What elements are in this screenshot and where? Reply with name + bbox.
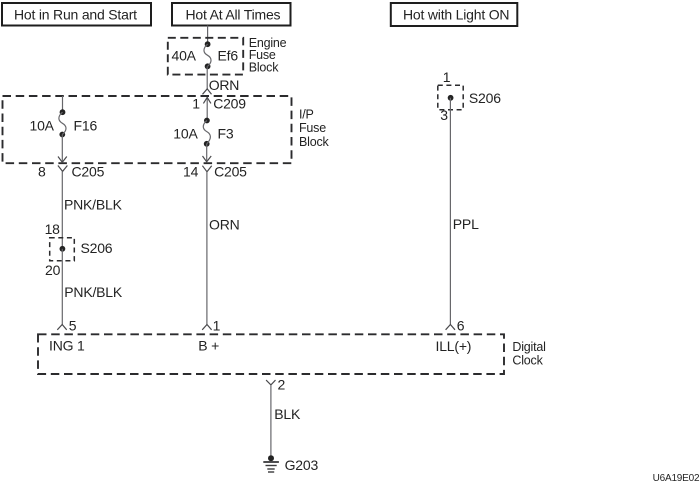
svg-text:ILL(+): ILL(+)	[436, 338, 472, 354]
svg-text:Block: Block	[299, 135, 330, 149]
svg-text:Hot in Run and Start: Hot in Run and Start	[14, 7, 137, 23]
ground G203	[263, 455, 279, 472]
svg-text:1: 1	[192, 96, 200, 112]
bus box Hot with Light ON	[391, 3, 518, 26]
svg-text:ORN: ORN	[209, 77, 240, 93]
clock pin 1 male half	[202, 325, 211, 330]
svg-text:1: 1	[443, 69, 451, 85]
svg-text:5: 5	[69, 318, 77, 334]
svg-text:3: 3	[440, 107, 448, 123]
svg-text:Fuse: Fuse	[299, 121, 326, 135]
svg-text:Hot At All Times: Hot At All Times	[186, 7, 281, 23]
wire ORN from C205-14 to clock pin 1	[206, 172, 208, 325]
bus box Hot At All Times	[172, 3, 291, 26]
wire PNK/BLK from splice to clock pin 5	[61, 249, 63, 325]
svg-text:Hot with Light ON: Hot with Light ON	[403, 7, 509, 23]
svg-text:C205: C205	[72, 164, 105, 180]
clock pin 2 female half	[266, 380, 275, 385]
svg-text:Clock: Clock	[512, 353, 543, 367]
svg-text:20: 20	[45, 262, 61, 278]
splice S206 left dot	[60, 246, 66, 252]
wire Hot At All Times to fuse Ef6	[207, 26, 209, 44]
svg-text:Digital: Digital	[512, 340, 545, 354]
svg-text:14: 14	[183, 164, 199, 180]
I/P Fuse Block dashed box	[3, 96, 292, 163]
clock pin 5 male half	[57, 325, 66, 330]
svg-text:S206: S206	[81, 240, 113, 256]
svg-text:Block: Block	[249, 61, 280, 75]
svg-text:PNK/BLK: PNK/BLK	[64, 284, 123, 300]
bus box Hot in Run and Start	[2, 3, 151, 26]
svg-text:40A: 40A	[172, 48, 197, 64]
svg-text:8: 8	[38, 164, 46, 180]
Digital Clock label	[512, 340, 545, 367]
svg-text:G203: G203	[285, 457, 319, 473]
svg-text:I/P: I/P	[299, 108, 314, 122]
svg-text:2: 2	[278, 377, 286, 393]
connector C209 male arrow	[203, 97, 211, 120]
wire BLK from pin 2 to ground	[270, 385, 272, 458]
connector C205 pin 14 female half	[202, 166, 211, 172]
wire ORN from Ef6 to C209	[206, 66, 208, 89]
wire stub to fuse F16	[62, 96, 64, 111]
svg-text:U6A19E02: U6A19E02	[653, 473, 700, 483]
splice S206 right dot	[448, 95, 454, 101]
Digital Clock dashed box	[38, 334, 504, 374]
wire PPL from splice to clock pin 6	[449, 98, 451, 325]
Engine Fuse Block label	[249, 36, 287, 75]
svg-text:F3: F3	[218, 126, 234, 142]
I/P Fuse Block label	[299, 108, 330, 149]
splice S206 right dashed box	[438, 85, 463, 110]
svg-text:S206: S206	[469, 90, 501, 106]
Engine Fuse Block dashed box	[168, 38, 243, 75]
connector C205 pin 8 female half	[58, 166, 68, 172]
svg-text:18: 18	[45, 221, 61, 237]
svg-text:10A: 10A	[173, 126, 198, 142]
wire PNK/BLK from C205-8 to splice S206	[61, 171, 63, 248]
svg-text:1: 1	[213, 318, 221, 334]
svg-text:B +: B +	[198, 338, 219, 354]
svg-text:F16: F16	[74, 118, 98, 134]
fuse F3	[203, 118, 210, 147]
svg-text:PNK/BLK: PNK/BLK	[64, 196, 123, 212]
svg-text:ORN: ORN	[209, 216, 240, 232]
svg-text:ING 1: ING 1	[49, 338, 85, 354]
svg-text:C209: C209	[213, 96, 246, 112]
svg-text:10A: 10A	[30, 118, 55, 134]
svg-text:PPL: PPL	[453, 216, 479, 232]
svg-text:BLK: BLK	[274, 406, 301, 422]
fuse F16	[59, 109, 66, 137]
fuse Ef6	[204, 41, 211, 69]
wire F3 to C205 arrow	[203, 144, 212, 162]
splice S206 left dashed box	[50, 238, 75, 261]
svg-text:C205: C205	[214, 164, 247, 180]
connector C209 female half	[203, 89, 212, 95]
svg-text:6: 6	[457, 318, 465, 334]
wire F16 to C205 arrow	[58, 135, 67, 163]
clock pin 6 male half	[446, 325, 455, 330]
svg-text:Ef6: Ef6	[218, 48, 239, 64]
